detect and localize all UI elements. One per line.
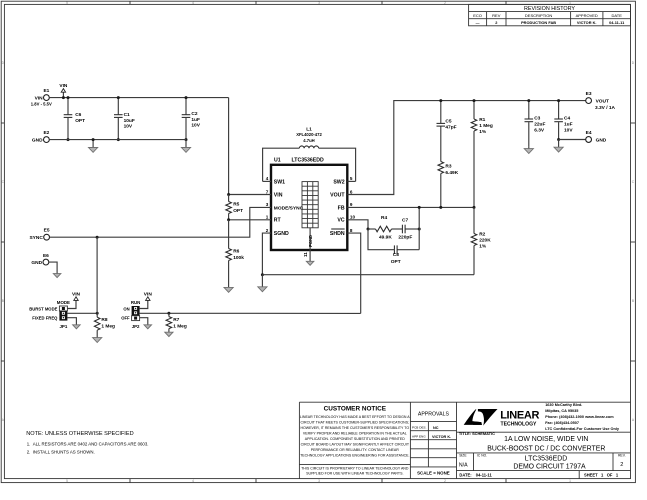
svg-text:R2: R2 [479, 232, 485, 238]
svg-text:XFL4020-472: XFL4020-472 [296, 132, 322, 137]
svg-text:E1: E1 [43, 88, 49, 94]
svg-text:NC: NC [433, 426, 439, 430]
Linear Technology logo [464, 409, 540, 427]
wire VOUT pin to rail [347, 101, 585, 195]
svg-text:7: 7 [266, 189, 269, 194]
svg-text:R3: R3 [445, 164, 451, 170]
svg-text:LINEAR TECHNOLOGY HAS MADE A B: LINEAR TECHNOLOGY HAS MADE A BEST EFFORT… [300, 415, 410, 419]
svg-text:TECHNOLOGY APPLICATIONS ENGINE: TECHNOLOGY APPLICATIONS ENGINEERING FOR … [300, 453, 409, 457]
svg-text:SIZE: SIZE [459, 454, 467, 458]
ground R6 [224, 287, 233, 292]
svg-text:6: 6 [350, 189, 353, 194]
svg-text:RT: RT [274, 218, 282, 224]
svg-text:11: 11 [303, 252, 308, 257]
svg-text:REV: REV [492, 13, 501, 18]
wire SHDN to RUN line [347, 233, 360, 313]
svg-text:IC NO.: IC NO. [477, 454, 487, 458]
capacitor C7 [398, 217, 420, 240]
svg-text:1uF: 1uF [191, 117, 200, 123]
svg-text:B: B [2, 299, 4, 303]
svg-text:10uF: 10uF [124, 118, 135, 124]
svg-text:C4: C4 [564, 116, 570, 122]
wire VIN pin [227, 193, 271, 196]
capacitor C3 [525, 99, 546, 147]
svg-text:220pF: 220pF [398, 234, 412, 240]
wire VIN rail [49, 97, 228, 99]
svg-text:4.7uH: 4.7uH [303, 138, 314, 143]
svg-text:REVISION HISTORY: REVISION HISTORY [524, 6, 575, 12]
svg-text:BUCK-BOOST DC / DC CONVERTER: BUCK-BOOST DC / DC CONVERTER [487, 445, 605, 452]
terminal E6 GND [31, 253, 49, 266]
svg-text:APPLICATION. COMPONENT SUBSTI: APPLICATION. COMPONENT SUBSTITUTION AND … [305, 437, 405, 441]
svg-text:NOTE: UNLESS OTHERWISE SPECIFI: NOTE: UNLESS OTHERWISE SPECIFIED [26, 431, 133, 437]
svg-text:ECO: ECO [473, 13, 482, 18]
approvals box [412, 412, 451, 476]
svg-text:JP1: JP1 [59, 324, 67, 329]
svg-text:4: 4 [192, 1, 194, 5]
svg-text:5: 5 [350, 176, 353, 181]
svg-text:SGND: SGND [274, 231, 289, 237]
svg-text:3.3V / 1A: 3.3V / 1A [595, 105, 616, 111]
svg-text:LTC3536EDD: LTC3536EDD [292, 158, 324, 164]
svg-text:VOUT: VOUT [596, 98, 609, 104]
inductor L1 [263, 126, 356, 181]
jumper JP1 gnd pin wire [67, 318, 80, 329]
title block frame [299, 402, 630, 478]
svg-text:1. ALL RESISTORS ARE 0402 AND: 1. ALL RESISTORS ARE 0402 AND CAPACITORS… [27, 442, 149, 447]
svg-text:1A LOW NOISE, WIDE VIN: 1A LOW NOISE, WIDE VIN [504, 436, 588, 443]
svg-text:2: 2 [444, 479, 446, 483]
svg-text:VIN: VIN [35, 95, 44, 101]
svg-text:04-11-11: 04-11-11 [609, 20, 625, 25]
svg-text:2. INSTALL SHUNTS AS SHOWN.: 2. INSTALL SHUNTS AS SHOWN. [27, 450, 95, 455]
svg-text:C1: C1 [124, 112, 130, 118]
U1 pin labels [266, 176, 356, 237]
wire E4 gnd [559, 139, 586, 141]
svg-text:10V: 10V [564, 128, 573, 134]
ground at input rail [89, 138, 98, 152]
svg-text:—: — [476, 20, 480, 25]
svg-text:C6: C6 [75, 112, 81, 118]
note text [26, 431, 148, 455]
svg-text:10V: 10V [191, 122, 200, 128]
svg-text:LINEAR: LINEAR [500, 410, 539, 422]
svg-text:CIRCUIT BOARD LAYOUT MAY SIGNI: CIRCUIT BOARD LAYOUT MAY SIGNIFICANTLY A… [301, 442, 410, 446]
svg-text:1uF: 1uF [564, 122, 573, 128]
ground SGND [258, 275, 267, 292]
svg-text:SW1: SW1 [274, 179, 285, 185]
svg-text:JP2: JP2 [132, 324, 140, 329]
svg-text:THIS CIRCUIT IS PROPRIETARY TO: THIS CIRCUIT IS PROPRIETARY TO LINEAR TE… [301, 467, 409, 471]
svg-text:3: 3 [318, 1, 320, 5]
svg-text:REV.: REV. [618, 454, 626, 458]
svg-text:VIN: VIN [144, 291, 153, 297]
svg-text:Phone: (408)432-1900 www.line: Phone: (408)432-1900 www.linear.com [545, 415, 614, 419]
resistor R8 [94, 313, 115, 337]
svg-text:PERFORMANCE OR RELIABILITY. C: PERFORMANCE OR RELIABILITY. CONTACT LINE… [311, 448, 400, 452]
svg-text:8: 8 [350, 228, 353, 233]
svg-text:10: 10 [350, 215, 356, 220]
svg-text:1%: 1% [479, 129, 487, 135]
svg-text:5: 5 [66, 1, 68, 5]
svg-text:49.9K: 49.9K [379, 234, 392, 240]
terminal E4 GND [586, 130, 607, 143]
svg-text:C8: C8 [393, 252, 399, 258]
size / ic no / rev row [459, 454, 626, 471]
svg-text:Milpitas, CA 95035: Milpitas, CA 95035 [545, 409, 578, 413]
svg-text:MODE/SYNC: MODE/SYNC [274, 205, 304, 211]
svg-text:SHDN: SHDN [330, 231, 345, 237]
resistor R4 [368, 215, 402, 240]
wire SYNC drop to MODE [96, 237, 98, 313]
wire GND rail [49, 139, 186, 141]
svg-text:1: 1 [569, 479, 571, 483]
svg-text:04-11-11: 04-11-11 [476, 473, 493, 478]
svg-text:C7: C7 [402, 217, 408, 223]
capacitor C4 [554, 99, 573, 141]
IC U1 LTC3536EDD [271, 158, 347, 250]
node PGND pad hatch [302, 182, 318, 228]
svg-text:LTC3536EDD: LTC3536EDD [525, 455, 567, 462]
capacitor C1 [114, 96, 135, 141]
svg-text:SHEET 1 OF 1: SHEET 1 OF 1 [584, 473, 619, 478]
svg-text:VERIFY PROPER AND RELIABLE OPE: VERIFY PROPER AND RELIABLE OPERATION IN … [303, 432, 407, 436]
ground C3 [524, 147, 533, 154]
date sheet row [459, 473, 618, 478]
svg-text:1 Meg: 1 Meg [479, 123, 493, 129]
svg-text:Fax: (408)434-0507: Fax: (408)434-0507 [545, 421, 579, 425]
svg-text:VICTOR K.: VICTOR K. [577, 20, 597, 25]
svg-text:PRODUCTION FAB: PRODUCTION FAB [521, 20, 556, 25]
svg-text:APPROVALS: APPROVALS [418, 412, 450, 418]
svg-text:LTC Confidential-For Customer: LTC Confidential-For Customer Use Only [545, 427, 620, 431]
svg-text:RUN: RUN [131, 300, 141, 305]
svg-text:CIRCUIT THAT MEETS CUSTOMER-SU: CIRCUIT THAT MEETS CUSTOMER-SUPPLIED SPE… [301, 421, 410, 425]
svg-text:R5: R5 [233, 202, 239, 208]
svg-text:C5: C5 [445, 119, 451, 125]
svg-text:DATE: DATE [612, 13, 623, 18]
wire comp to FB [418, 206, 421, 250]
jumper JP2 [121, 300, 140, 329]
svg-text:VICTOR K.: VICTOR K. [432, 435, 451, 439]
svg-text:2: 2 [620, 462, 623, 468]
svg-text:TECHNOLOGY: TECHNOLOGY [501, 421, 538, 427]
ground at C2 [181, 140, 190, 153]
svg-text:R4: R4 [381, 215, 387, 221]
terminal E3 VOUT [586, 91, 616, 111]
svg-text:DEMO CIRCUIT 1797A: DEMO CIRCUIT 1797A [513, 464, 586, 471]
resistor R1 [471, 99, 493, 209]
customer notice [300, 406, 410, 476]
svg-text:SYNC: SYNC [29, 235, 43, 241]
pin 11 PGND stem [303, 228, 313, 261]
svg-text:B: B [632, 299, 634, 303]
svg-text:ON: ON [123, 307, 129, 312]
svg-text:GND: GND [31, 260, 42, 266]
wire SYNC to MODE pin [50, 207, 272, 238]
svg-text:SCALE = NONE: SCALE = NONE [417, 471, 450, 476]
svg-text:VIN: VIN [72, 291, 81, 297]
terminal E1 VIN [31, 88, 52, 107]
svg-text:R1: R1 [479, 117, 485, 123]
title text [459, 431, 605, 452]
svg-text:FIXED FREQ: FIXED FREQ [32, 316, 58, 321]
wire FB line [347, 206, 474, 208]
svg-text:VC: VC [337, 218, 344, 224]
wire SGND pin [261, 233, 271, 276]
svg-text:E5: E5 [44, 228, 50, 234]
jumper JP2 gnd pin wire [140, 318, 152, 329]
wire VC pin [347, 220, 369, 231]
wire SW1 stub [263, 180, 271, 182]
svg-text:E4: E4 [586, 130, 592, 136]
svg-text:GND: GND [32, 137, 43, 143]
resistor R6 [226, 220, 244, 288]
jumper JP1 [29, 300, 70, 329]
jumper JP1 VIN pin wire [67, 291, 80, 308]
svg-text:22uF: 22uF [534, 122, 545, 128]
svg-text:4: 4 [266, 176, 269, 181]
svg-text:MODE: MODE [57, 300, 70, 305]
svg-text:CUSTOMER NOTICE: CUSTOMER NOTICE [324, 406, 387, 413]
capacitor C5 [437, 99, 457, 161]
svg-text:6.3V: 6.3V [534, 128, 545, 134]
terminal E5 SYNC [29, 228, 49, 241]
svg-text:9: 9 [350, 202, 353, 207]
resistor R5 [226, 195, 243, 220]
wire MODE line [67, 312, 98, 315]
svg-text:3: 3 [318, 479, 320, 483]
capacitor C8 [368, 229, 419, 265]
wire SW2 stub [347, 180, 355, 182]
svg-text:E3: E3 [586, 91, 592, 97]
svg-text:PCB DES.: PCB DES. [412, 425, 427, 429]
svg-text:E6: E6 [43, 253, 49, 259]
svg-text:4: 4 [192, 479, 194, 483]
svg-text:TITLE: SCHEMATIC: TITLE: SCHEMATIC [459, 431, 495, 436]
svg-text:R8: R8 [101, 317, 107, 323]
svg-text:SUPPLIED FOR USE WITH LINEAR T: SUPPLIED FOR USE WITH LINEAR TECHNOLOGY … [306, 472, 403, 476]
svg-text:1630 McCarthy Blvd.: 1630 McCarthy Blvd. [545, 403, 582, 407]
svg-text:PGND: PGND [308, 235, 313, 247]
svg-text:E2: E2 [43, 130, 49, 136]
svg-text:U1: U1 [274, 158, 281, 164]
address block [545, 403, 620, 431]
svg-text:R7: R7 [173, 317, 179, 323]
svg-text:OPT: OPT [75, 118, 85, 124]
node VIN arrow at input [59, 83, 68, 99]
svg-text:10V: 10V [124, 123, 133, 129]
svg-text:APP ENG: APP ENG [412, 434, 426, 438]
ground PGND [306, 261, 314, 265]
svg-text:1%: 1% [479, 244, 487, 250]
svg-text:VIN: VIN [274, 192, 283, 198]
svg-text:OPT: OPT [233, 208, 243, 214]
svg-text:1 Meg: 1 Meg [101, 324, 115, 330]
svg-text:SW2: SW2 [333, 179, 344, 185]
svg-text:C3: C3 [534, 116, 540, 122]
revision history table [469, 4, 631, 25]
svg-text:OFF: OFF [121, 316, 130, 321]
wire RUN line [140, 312, 361, 315]
resistor R2 [471, 207, 491, 274]
svg-text:HOWEVER, IT REMAINS THE CUSTOM: HOWEVER, IT REMAINS THE CUSTOMER'S RESPO… [300, 426, 409, 430]
svg-text:VOUT: VOUT [330, 192, 345, 198]
svg-text:47pF: 47pF [445, 125, 456, 131]
ground C4 [554, 140, 563, 153]
svg-text:FB: FB [338, 205, 345, 211]
svg-text:5: 5 [66, 479, 68, 483]
svg-text:1: 1 [266, 215, 269, 220]
svg-text:DATE:: DATE: [459, 473, 471, 478]
svg-text:DESCRIPTION: DESCRIPTION [525, 13, 552, 18]
svg-text:3: 3 [266, 202, 269, 207]
terminal E2 GND [32, 130, 50, 143]
svg-text:C2: C2 [191, 111, 197, 117]
ground R8 [93, 338, 102, 343]
jumper JP2 VIN pin wire [140, 291, 153, 308]
resistor R3 [438, 162, 459, 209]
svg-text:BURST MODE: BURST MODE [29, 307, 57, 312]
ground E6 [49, 262, 61, 278]
svg-text:GND: GND [596, 137, 607, 143]
svg-text:1 Meg: 1 Meg [173, 324, 187, 330]
capacitor C6 [64, 96, 85, 141]
wire VIN feed down to U1 [228, 98, 230, 195]
svg-text:2: 2 [266, 228, 269, 233]
ground R7 [165, 332, 173, 336]
svg-text:220K: 220K [479, 238, 491, 244]
svg-text:N/A: N/A [459, 462, 468, 468]
svg-text:VIN: VIN [59, 83, 68, 89]
wire analog ground line [262, 274, 474, 276]
wire RT pin [227, 218, 271, 221]
capacitor C2 [182, 96, 201, 141]
svg-text:100k: 100k [233, 255, 244, 261]
svg-text:2: 2 [444, 1, 446, 5]
svg-text:OPT: OPT [391, 259, 401, 265]
resistor R7 [166, 313, 187, 332]
svg-text:R6: R6 [233, 249, 239, 255]
svg-text:APPROVED: APPROVED [576, 13, 598, 18]
svg-text:6.49K: 6.49K [445, 170, 458, 176]
svg-text:1.8V - 5.5V: 1.8V - 5.5V [31, 102, 52, 107]
